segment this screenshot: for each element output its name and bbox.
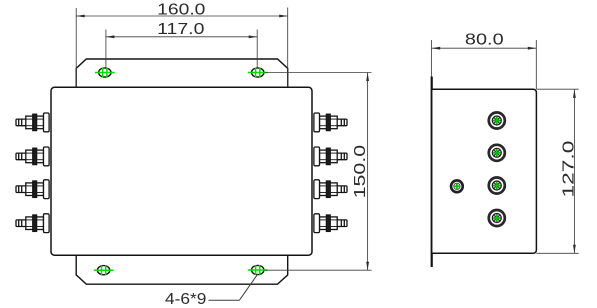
terminal left 3 xyxy=(16,180,49,199)
terminal end 4 xyxy=(488,209,506,227)
svg-text:150.0: 150.0 xyxy=(352,145,369,199)
slot bottom-right xyxy=(248,265,268,275)
terminal right 3 xyxy=(314,180,347,199)
terminal end 2 xyxy=(488,144,506,162)
terminal right 1 xyxy=(314,113,347,132)
bottom mounting flange xyxy=(76,255,288,284)
terminal left 2 xyxy=(16,147,49,166)
filter body xyxy=(51,87,312,255)
terminal end 3 xyxy=(488,177,506,195)
terminal left 1 xyxy=(16,113,49,132)
ground stud xyxy=(450,180,463,193)
dimension 160.0 xyxy=(76,8,288,88)
svg-text:127.0: 127.0 xyxy=(560,140,577,197)
svg-text:4-6*9: 4-6*9 xyxy=(165,291,207,308)
top mounting flange xyxy=(76,59,288,87)
side body xyxy=(432,89,537,253)
svg-text:80.0: 80.0 xyxy=(465,31,504,48)
slot bottom-left xyxy=(94,265,114,275)
side flange plate xyxy=(431,77,433,268)
svg-text:117.0: 117.0 xyxy=(157,21,204,38)
terminal left 4 xyxy=(16,214,49,233)
slot top-left xyxy=(95,68,115,78)
terminal end 1 xyxy=(488,112,506,130)
dimension 150.0 xyxy=(265,73,372,271)
dimension 117.0 xyxy=(106,30,257,68)
terminal right 4 xyxy=(314,214,347,233)
dimension 80.0 xyxy=(431,40,536,89)
slot top-right xyxy=(248,68,268,78)
dimension 127.0 xyxy=(536,89,578,253)
svg-text:160.0: 160.0 xyxy=(157,2,205,19)
terminal right 2 xyxy=(314,147,347,166)
